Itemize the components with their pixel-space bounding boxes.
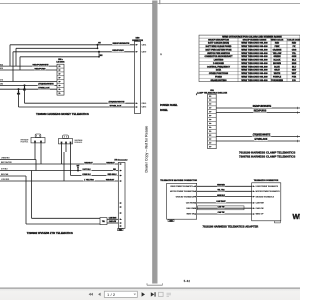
svg-text:YEL TRA: YEL TRA bbox=[217, 189, 225, 192]
svg-text:PUR/GREEN: PUR/GREEN bbox=[271, 80, 283, 82]
svg-text:MOTOR POWER TELEMATICS: MOTOR POWER TELEMATICS bbox=[256, 190, 281, 193]
svg-text:RED/BAT: RED/BAT bbox=[106, 178, 115, 181]
svg-text:CAN TW: CAN TW bbox=[218, 205, 225, 208]
svg-text:GROUND TELEMATICS: GROUND TELEMATICS bbox=[256, 195, 275, 198]
svg-text:HRN RED: HRN RED bbox=[217, 185, 225, 187]
svg-text:C150: C150 bbox=[169, 220, 173, 222]
svg-text:CB4: CB4 bbox=[0, 84, 3, 86]
svg-text:RED/BAT: RED/BAT bbox=[84, 161, 93, 164]
svg-text:BATT PWR BATTERY FUSE: BATT PWR BATTERY FUSE bbox=[205, 48, 232, 51]
svg-text:L YEL/TRO: L YEL/TRO bbox=[1, 179, 10, 181]
svg-text:C/AN BLI: C/AN BLI bbox=[82, 173, 91, 176]
svg-text:CAN TIGHT: CAN TIGHT bbox=[216, 200, 226, 203]
svg-text:WAKE UP: WAKE UP bbox=[256, 213, 265, 216]
svg-text:ITR#: ITR# bbox=[119, 229, 122, 231]
svg-text:BATT CABLES (MAIN): BATT CABLES (MAIN) bbox=[208, 42, 229, 45]
svg-text:CAN LOW: CAN LOW bbox=[256, 207, 264, 210]
svg-text:USER POWER TELEMATICS +: USER POWER TELEMATICS + bbox=[170, 185, 194, 188]
svg-text:GRAY: GRAY bbox=[274, 69, 280, 72]
svg-text:1: 1 bbox=[196, 94, 197, 96]
svg-text:RED/PUR/WHITE: RED/PUR/WHITE bbox=[113, 43, 130, 45]
svg-text:T298992 WVHE58 ZTR TELEMATICS: T298992 WVHE58 ZTR TELEMATICS bbox=[27, 231, 73, 235]
svg-text:PANEL: PANEL bbox=[160, 109, 168, 112]
svg-text:Dealer Copy -- Not for Resale: Dealer Copy -- Not for Resale bbox=[144, 126, 148, 173]
svg-text:ORANGE: ORANGE bbox=[273, 48, 282, 51]
svg-text:1 / 2: 1 / 2 bbox=[107, 293, 115, 297]
svg-text:TEL: TEL bbox=[102, 221, 105, 223]
svg-text:DATA: DATA bbox=[216, 69, 222, 72]
svg-text:RD9: RD9 bbox=[0, 68, 3, 70]
svg-text:TELEMATICS MACHINE CONNECTOR: TELEMATICS MACHINE CONNECTOR bbox=[160, 179, 197, 182]
svg-text:5-62: 5-62 bbox=[184, 279, 191, 283]
svg-text:USER POWER TELEMATICS: USER POWER TELEMATICS bbox=[256, 185, 279, 188]
svg-text:CAN HIGH: CAN HIGH bbox=[256, 202, 265, 205]
svg-text:RED/PUR/WHITE: RED/PUR/WHITE bbox=[253, 106, 272, 108]
svg-text:ET0/BLACK: ET0/BLACK bbox=[38, 87, 50, 90]
svg-text:WI: WI bbox=[293, 212, 301, 221]
svg-text:BATT WIRE CLEAN FUSED: BATT WIRE CLEAN FUSED bbox=[206, 45, 232, 48]
svg-text:GRAN/LIGHTING: GRAN/LIGHTING bbox=[211, 79, 227, 82]
svg-text:RED/PUR/S: RED/PUR/S bbox=[112, 50, 124, 52]
svg-text:FUSE HOL: FUSE HOL bbox=[21, 141, 29, 143]
svg-text:7019199 HARNESS TELEMATICS ADA: 7019199 HARNESS TELEMATICS ADAPTER bbox=[203, 225, 259, 229]
svg-text:CONNECTOR GROUND/BATT: CONNECTOR GROUND/BATT bbox=[204, 55, 233, 58]
svg-text:(TR)RED/WHITE: (TR)RED/WHITE bbox=[38, 84, 54, 86]
svg-text:TELEMATICS CONNECTOR: TELEMATICS CONNECTOR bbox=[254, 179, 279, 182]
svg-text:RED 50/LI: RED 50/LI bbox=[108, 174, 117, 176]
svg-text:FUSE HOL: FUSE HOL bbox=[75, 142, 83, 144]
svg-text:RED/PUR/WHITE: RED/PUR/WHITE bbox=[33, 64, 50, 66]
svg-text:5 GY BLI: 5 GY BLI bbox=[1, 169, 8, 171]
svg-text:GRN BLK: GRN BLK bbox=[217, 195, 225, 197]
svg-text:BLACK: BLACK bbox=[274, 59, 282, 62]
svg-text:GROUP DESCRIPTION: GROUP DESCRIPTION bbox=[208, 40, 229, 42]
svg-text:1: 1 bbox=[161, 54, 162, 56]
svg-text:RED YEL/TRO: RED YEL/TRO bbox=[1, 162, 12, 164]
svg-text:L YEL/TRO: L YEL/TRO bbox=[84, 179, 94, 181]
svg-text:RED/BAT: RED/BAT bbox=[106, 161, 115, 164]
svg-text:WIRE COLOR: WIRE COLOR bbox=[271, 40, 284, 42]
svg-text:RD4: RD4 bbox=[0, 64, 3, 66]
svg-text:(TR)RED/WHITE: (TR)RED/WHITE bbox=[109, 102, 125, 104]
svg-text:CAN LOW: CAN LOW bbox=[186, 207, 194, 210]
svg-text:RED/PUR/S: RED/PUR/S bbox=[35, 68, 47, 70]
svg-text:MOTOR POWER TELEMATICS: MOTOR POWER TELEMATICS bbox=[170, 190, 195, 193]
svg-text:WIRE THROUGH 000-099: WIRE THROUGH 000-099 bbox=[241, 80, 268, 82]
svg-text:ITR Connector: ITR Connector bbox=[114, 159, 127, 162]
svg-text:ET0/BLACK: ET0/BLACK bbox=[110, 104, 122, 107]
svg-text:L RED/TRO: L RED/TRO bbox=[1, 158, 10, 160]
svg-text:COLOR CODE: COLOR CODE bbox=[287, 40, 300, 42]
svg-text:CB9 +: CB9 + bbox=[58, 59, 63, 61]
svg-text:5 GY BLI: 5 GY BLI bbox=[83, 169, 91, 171]
svg-text:ET0/BLACK: ET0/BLACK bbox=[255, 138, 268, 141]
svg-text:CAN TW: CAN TW bbox=[218, 211, 225, 214]
svg-text:T298989 HARNESS MOREY TELEMATI: T298989 HARNESS MOREY TELEMATICS bbox=[36, 112, 89, 116]
svg-text:7266782 HARNESS CLAMP TELEMATI: 7266782 HARNESS CLAMP TELEMATICS bbox=[239, 155, 295, 159]
svg-text:(TR)RED/WHITE: (TR)RED/WHITE bbox=[253, 135, 271, 137]
svg-text:RED/PUR/S: RED/PUR/S bbox=[254, 111, 267, 113]
svg-text:POWER PANEL: POWER PANEL bbox=[160, 104, 178, 107]
svg-text:P/G: P/G bbox=[292, 80, 296, 82]
svg-text:GROUND TELEMATICS: GROUND TELEMATICS bbox=[176, 195, 195, 198]
